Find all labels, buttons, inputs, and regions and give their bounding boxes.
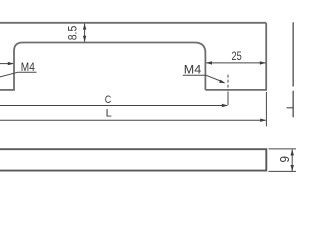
dimension 9 lower arrow	[291, 165, 294, 171]
dimension 25 left arrow	[206, 61, 212, 64]
dimension 9 line	[291, 150, 293, 172]
dimension 8.5 upper arrow	[83, 23, 86, 29]
svg-text:8.5: 8.5	[67, 26, 79, 41]
dimension 8.5 lower arrow	[83, 36, 86, 42]
dimension L arrow	[260, 119, 266, 122]
svg-text:25: 25	[232, 51, 242, 63]
cropped end view tick	[287, 107, 294, 109]
handle right end edge	[265, 23, 267, 90]
left cropped dimension line	[0, 63, 13, 65]
M4 hole centerline extension	[227, 92, 229, 106]
handle bar top line	[0, 22, 266, 24]
right end extension line	[265, 92, 267, 126]
dimension 25 right arrow	[260, 61, 266, 64]
dimension 8.5 line	[84, 24, 86, 42]
right foot bottom line	[205, 89, 267, 91]
svg-text:L: L	[106, 108, 112, 120]
dimension 25 line	[206, 62, 265, 64]
dimension C arrow	[222, 104, 228, 107]
left cropped dimension arrow	[8, 62, 14, 65]
plan view lower extension line	[269, 170, 297, 172]
M4 hole hidden centerline	[227, 75, 229, 91]
cropped end view left edge	[292, 22, 294, 117]
left foot bottom line	[0, 89, 15, 91]
right M4 leader diagonal	[206, 75, 221, 81]
right M4 leader shelf	[183, 74, 206, 76]
left M4 leader diagonal	[0, 72, 18, 77]
handle bar bottom profile with leg fillets	[14, 43, 205, 90]
dimension L line	[0, 119, 266, 121]
svg-text:9: 9	[278, 156, 292, 163]
dimension 9 upper arrow	[291, 149, 294, 155]
svg-text:C: C	[105, 94, 112, 106]
dimension C line	[0, 105, 227, 107]
right M4 leader arrow	[219, 80, 226, 84]
plan view rectangle	[0, 149, 266, 170]
svg-text:M4: M4	[184, 65, 202, 77]
left M4 leader shelf	[18, 71, 37, 73]
plan view upper extension line	[269, 148, 297, 150]
